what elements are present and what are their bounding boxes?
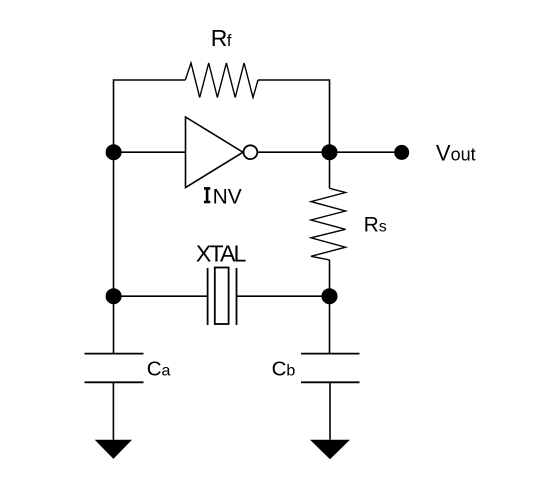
wire node C to crystal <box>114 295 208 297</box>
resistor Rs <box>311 188 346 260</box>
node C (crystal left junction) <box>106 288 122 304</box>
wire node D to Cb <box>329 296 331 353</box>
Vout terminal dot <box>394 145 409 160</box>
svg-text:Cb: Cb <box>272 357 296 380</box>
resistor Rf <box>185 63 258 98</box>
node A (inverter input junction) <box>106 144 122 160</box>
wire node C to Ca <box>113 296 115 353</box>
svg-text:Rs: Rs <box>364 214 387 237</box>
wire Rs to node D <box>329 260 331 296</box>
capacitor Ca top plate <box>85 353 144 355</box>
capacitor Cb top plate <box>301 353 360 355</box>
crystal XTAL body <box>215 268 229 325</box>
svg-text:Ca: Ca <box>147 357 171 380</box>
wire left rail node A to node C <box>113 152 115 296</box>
crystal XTAL left plate <box>207 268 209 325</box>
inverter bubble <box>244 145 258 159</box>
svg-text:Vout: Vout <box>436 140 476 165</box>
ground (left) <box>95 440 132 459</box>
op-amp U1 inverter triangle <box>186 117 244 188</box>
node D (crystal right junction) <box>322 288 338 304</box>
capacitor Cb bottom plate <box>301 381 360 383</box>
wire top right (Rf to node B) <box>258 80 330 152</box>
svg-text:Rf: Rf <box>211 25 232 51</box>
label INV <box>204 185 242 208</box>
crystal XTAL right plate <box>236 268 238 325</box>
wire top left (node A to Rf) <box>114 80 186 152</box>
svg-text:XTAL: XTAL <box>196 241 247 267</box>
wire crystal to node D <box>237 295 330 297</box>
capacitor Ca bottom plate <box>85 381 144 383</box>
wire inverter input <box>114 151 186 153</box>
wire inverter output to node B <box>257 151 329 153</box>
svg-text:NV: NV <box>213 185 242 208</box>
wire node B to Rs <box>329 152 331 188</box>
wire Ca to ground <box>112 382 114 439</box>
wire node B to Vout terminal <box>330 151 402 153</box>
ground (right) <box>310 440 350 460</box>
wire Cb to ground <box>329 382 331 439</box>
node B (inverter output junction) <box>322 144 338 160</box>
